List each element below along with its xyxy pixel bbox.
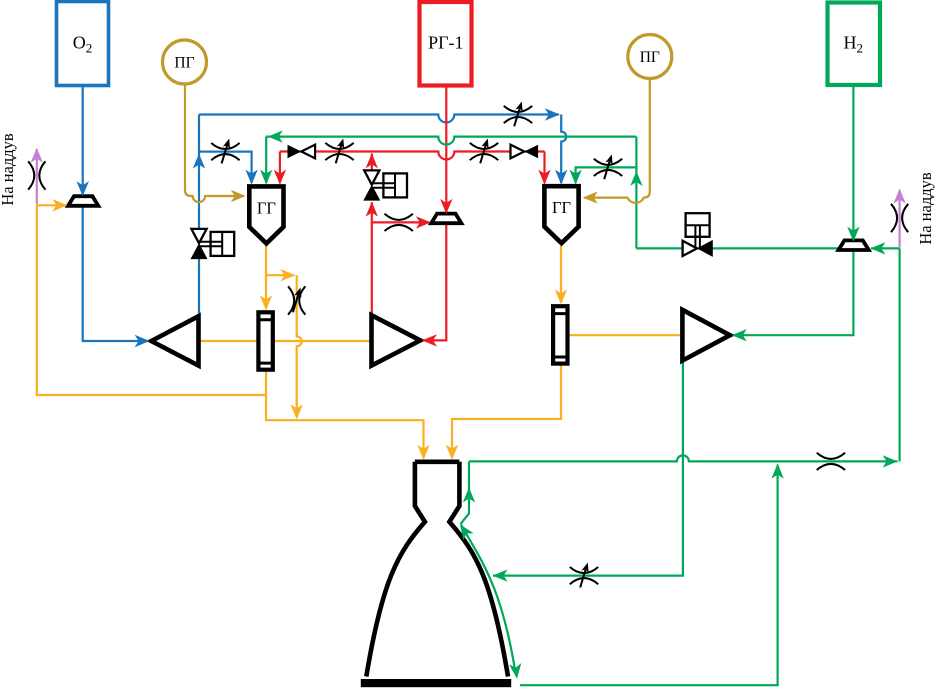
svg-text:ПГ: ПГ (640, 49, 660, 66)
throttle on red manifold left (325, 137, 353, 163)
gas generator GG2 (544, 186, 578, 243)
svg-text:РГ-1: РГ-1 (428, 33, 463, 53)
wire pressurization vent left (36, 149, 38, 205)
wire H2 membrane to pump inlet (732, 250, 853, 335)
tank RG-1 (420, 2, 472, 86)
pump RG1 (372, 315, 421, 365)
venturi on red bypass (385, 214, 413, 231)
venturi on green collector (817, 453, 845, 470)
tank H2 (828, 3, 881, 86)
wire nozzle cooling jacket channel (461, 525, 516, 674)
svg-text:ГГ: ГГ (257, 199, 276, 218)
wire green distribution bottom run through valve (636, 247, 838, 249)
wire pressurization vent right (898, 190, 900, 248)
wire turbine1 exhaust to chamber (266, 372, 424, 458)
wire shaft O2 pump to turbine1 (199, 340, 259, 342)
wire RG1 bypass branch to membrane (372, 221, 430, 223)
wire RG1 manifold drop into GG1 (279, 152, 281, 184)
wire H2 tank line (852, 85, 854, 240)
wire RG1 membrane to pump inlet (424, 223, 447, 340)
turbine 2 (553, 306, 567, 363)
wire O2 tank feed line (82, 86, 84, 195)
pump H2 (682, 310, 730, 361)
throttle on red manifold right (470, 137, 498, 163)
wire O2 feed membrane to pump inlet (83, 206, 148, 341)
wire RG1 riser valve to manifold (371, 153, 373, 170)
wire regen riser right side (898, 248, 900, 461)
wire RG1 manifold with jump over tank line (280, 152, 545, 160)
svg-text:На наддув: На наддув (916, 172, 935, 245)
membrane valve RG1 (431, 214, 461, 224)
throttle on green jacket entry (570, 561, 598, 587)
wire GG1 outlet to turbine1 (265, 246, 267, 309)
wire PG2 supply with jump over green riser (585, 79, 650, 203)
wire RG1 tank line (445, 86, 447, 212)
combustion chamber and nozzle (366, 462, 508, 677)
wire shaft turbine1 to RG1 pump (273, 340, 372, 342)
gas generator GG1 (249, 186, 283, 243)
wire regen collector manifold (469, 455, 898, 461)
wire regen from throat up (461, 461, 470, 524)
throttle on green branch to GG2 (594, 153, 622, 179)
wire regen return bottom manifold up (520, 465, 778, 686)
wire GG2 outlet to turbine2 (560, 246, 562, 303)
wire green drop into GG1 (265, 137, 267, 183)
wire RG1 pump outlet riser (371, 202, 373, 315)
wire pressurization O2 side yellow (37, 204, 66, 206)
turbine 1 (258, 312, 272, 369)
venturi on purple vent left (28, 161, 45, 189)
tank O2 (57, 2, 109, 86)
wire pressurization junction to H2 membrane (871, 247, 899, 249)
throttle on blue branch (211, 137, 239, 163)
check valve left (288, 145, 316, 159)
wire PG1 supply with jump over blue riser (185, 84, 244, 202)
wire O2 pump outlet riser below valve (198, 259, 200, 317)
wire turbine2 exhaust to chamber (452, 366, 561, 459)
wire RG1 manifold drop into GG2 (543, 152, 545, 184)
wire drain line left (37, 205, 266, 395)
membrane valve H2 (839, 240, 869, 250)
wire O2 manifold drop to GG2 with jump over green line (561, 115, 566, 184)
pneumatic valve RG1 line (364, 170, 407, 200)
wire green top manifold to GG1 with jump over RG1 line (266, 137, 636, 145)
wire O2 riser valve to tee (198, 152, 200, 230)
wire shaft turbine2 to H2 pump (569, 334, 682, 336)
wire O2 branch into GG1 (199, 152, 252, 183)
wire green distribution riser (635, 137, 637, 249)
wire GG1 branch drop with throttle and jump over shaft (297, 275, 302, 417)
membrane valve O2 (68, 196, 98, 206)
gas analyzer PG2 circle (628, 35, 672, 79)
nozzle exit manifold bar (361, 679, 511, 687)
pneumatic valve O2 line (191, 229, 234, 259)
pump O2 (151, 316, 198, 365)
flow arrows (31, 108, 906, 679)
wire green branch to GG2 (576, 167, 637, 183)
throttle on blue top manifold (504, 100, 532, 126)
check valve right (511, 145, 539, 159)
gas analyzer PG1 circle (163, 40, 207, 84)
svg-text:ГГ: ГГ (552, 198, 571, 217)
svg-text:ПГ: ПГ (174, 55, 194, 72)
wire O2 riser tee to top manifold (198, 115, 200, 152)
wire GG1 branch tee (266, 274, 294, 276)
pneumatic valve H2 line (683, 213, 713, 256)
wire H2 pump outlet down to nozzle jacket entry (493, 361, 683, 576)
throttle on yellow drop (288, 286, 305, 314)
wire O2 top manifold with jump over RG1 line (199, 115, 559, 123)
svg-text:На наддув: На наддув (0, 133, 17, 206)
venturi on purple vent right (891, 204, 908, 232)
